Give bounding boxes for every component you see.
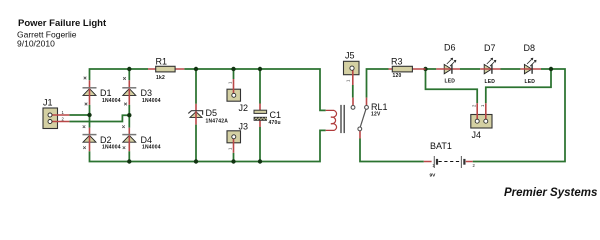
svg-text:9/10/2010: 9/10/2010 [17, 39, 55, 49]
svg-text:1N4004: 1N4004 [102, 144, 121, 150]
wire J5 to switch contact [352, 85, 354, 98]
resistor R1 [148, 57, 184, 82]
wire D5 bottom [195, 125, 197, 162]
svg-text:LED: LED [525, 79, 536, 85]
relay core bars [340, 105, 342, 133]
svg-text:D1: D1 [100, 88, 112, 98]
wire R3 to D6 [426, 68, 437, 70]
svg-text:BAT1: BAT1 [430, 141, 452, 151]
wire D5 top [195, 69, 197, 104]
wire right bypass to J4 pin 1 [486, 69, 551, 103]
svg-text:120: 120 [393, 73, 402, 79]
diode D4 [122, 125, 161, 151]
wire J2 top [233, 69, 235, 79]
svg-text:C1: C1 [270, 110, 282, 120]
connector J1 [43, 98, 69, 129]
svg-text:R3: R3 [391, 57, 403, 67]
svg-text:1N4004: 1N4004 [142, 144, 161, 150]
wire D1-D2 node column [89, 105, 91, 128]
wire C1 top [259, 69, 261, 104]
svg-text:J1: J1 [43, 98, 53, 108]
svg-text:J2: J2 [239, 103, 249, 113]
svg-text:D5: D5 [206, 108, 218, 118]
wire J1 pin1 to node A [69, 114, 89, 116]
connector J2 [227, 79, 248, 113]
svg-text:1N4004: 1N4004 [102, 98, 121, 104]
svg-text:Premier Systems: Premier Systems [504, 187, 597, 199]
connector J5 [344, 51, 360, 86]
wire D4 bottom [128, 151, 130, 161]
svg-text:1N4004: 1N4004 [142, 98, 161, 104]
LED D6 [436, 43, 460, 85]
wire D6 to D7 [460, 68, 480, 70]
LED D8 [520, 43, 541, 85]
diode D2 [83, 125, 121, 151]
svg-text:D6: D6 [444, 43, 456, 53]
capacitor C1 [254, 104, 281, 128]
svg-text:LED: LED [445, 79, 456, 85]
wire left bypass to J4 pin 2 [426, 69, 478, 103]
zener diode D5 [188, 104, 228, 125]
wire bottom rail and relay coil bottom lead [90, 130, 326, 161]
svg-text:12V: 12V [371, 112, 381, 118]
wire J3 bottom [233, 153, 235, 162]
wire J1 pin2 jog to node B [69, 115, 129, 121]
LED D7 [480, 43, 500, 85]
svg-text:J5: J5 [345, 51, 355, 61]
wire D7 to D8 [501, 68, 521, 70]
svg-text:LED: LED [485, 79, 496, 85]
connector J3 [227, 122, 248, 153]
diode D1 [83, 77, 121, 106]
wire D3-D4 node column [128, 105, 130, 128]
svg-text:D8: D8 [524, 43, 536, 53]
wire C1 bottom [259, 127, 261, 162]
svg-text:1k2: 1k2 [156, 75, 165, 81]
svg-text:Power Failure Light: Power Failure Light [18, 18, 107, 29]
svg-text:9V: 9V [430, 173, 437, 179]
wire switch common to battery [360, 139, 424, 162]
wire D3 top column [128, 69, 130, 80]
svg-text:RL1: RL1 [371, 102, 388, 112]
wire D8 to right rail down to battery [473, 69, 565, 162]
battery BAT1 [424, 141, 476, 179]
svg-text:D7: D7 [484, 43, 496, 53]
wire switch right contact up to R3 [367, 69, 389, 98]
relay switch contacts RL1 [351, 98, 387, 139]
resistor R3 [389, 57, 426, 80]
wire top rail left [90, 69, 149, 80]
svg-text:J4: J4 [472, 130, 482, 140]
svg-text:D3: D3 [141, 88, 153, 98]
svg-text:J3: J3 [239, 122, 249, 132]
svg-text:470u: 470u [269, 120, 281, 126]
svg-text:R1: R1 [156, 57, 168, 67]
relay coil RL1 [326, 105, 345, 133]
connector J4 [471, 103, 492, 140]
svg-text:1N4742A: 1N4742A [206, 119, 229, 125]
wire top rail right and relay coil top lead [184, 69, 325, 110]
diode D3 [122, 77, 160, 105]
